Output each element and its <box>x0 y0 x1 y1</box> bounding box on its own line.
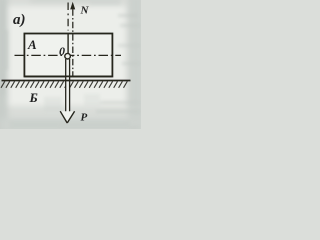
block A (rectangle) <box>24 34 112 77</box>
N force line (dashed above block, solid inside) <box>67 3 69 31</box>
force P open arrowhead <box>60 111 74 123</box>
horizontal dash-dot centerline <box>15 54 122 56</box>
svg-text:а): а) <box>13 12 26 28</box>
hatching under ground <box>1 81 127 88</box>
svg-text:Б: Б <box>29 90 38 105</box>
block bottom edge over shaft <box>24 75 112 77</box>
N arrowhead <box>70 2 75 10</box>
svg-text:N: N <box>80 5 90 17</box>
svg-text:P: P <box>81 112 88 124</box>
force P hollow arrow shaft <box>66 59 70 112</box>
paper background <box>0 0 141 129</box>
vertical dash-dot axis with N arrowhead <box>72 9 74 75</box>
ground line Б <box>2 80 131 82</box>
svg-text:A: A <box>27 37 37 52</box>
svg-text:0: 0 <box>59 44 65 58</box>
point O circle <box>65 53 71 59</box>
